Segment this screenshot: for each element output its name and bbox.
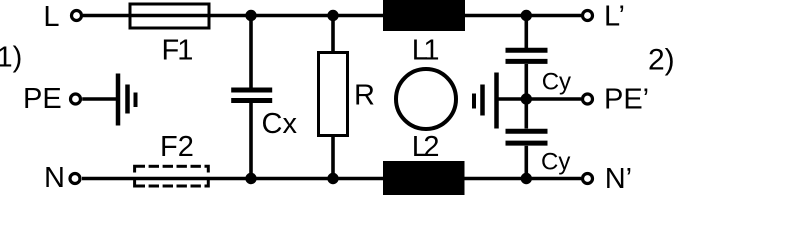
- svg-text:F1: F1: [162, 35, 193, 67]
- svg-text:PE’: PE’: [604, 83, 649, 115]
- svg-text:N’: N’: [605, 163, 632, 195]
- svg-text:PE: PE: [23, 83, 62, 115]
- svg-text:F2: F2: [160, 131, 194, 163]
- svg-text:L: L: [43, 1, 59, 33]
- svg-text:2): 2): [648, 44, 675, 77]
- svg-text:1): 1): [0, 42, 22, 74]
- svg-text:Cy: Cy: [542, 68, 571, 95]
- svg-text:Cy: Cy: [541, 148, 570, 175]
- svg-text:L1: L1: [412, 35, 439, 67]
- svg-text:Cx: Cx: [262, 108, 298, 140]
- svg-text:L2: L2: [412, 131, 439, 163]
- svg-text:N: N: [44, 162, 65, 194]
- svg-text:L’: L’: [604, 1, 625, 33]
- svg-text:R: R: [354, 80, 375, 112]
